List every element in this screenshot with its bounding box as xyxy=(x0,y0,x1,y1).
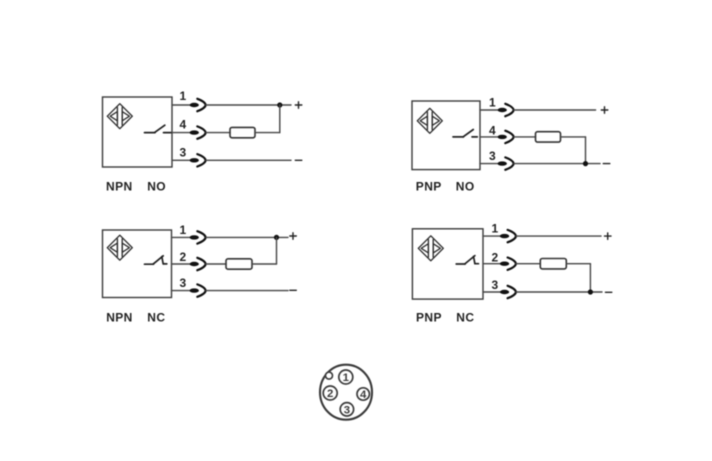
sensor body box U4 xyxy=(412,229,483,299)
wire vertical down to - rail xyxy=(589,264,591,292)
keying notch xyxy=(326,372,333,379)
svg-text:3: 3 xyxy=(179,145,186,159)
wire pin4 from box xyxy=(172,132,189,134)
plug contact pin2 xyxy=(500,258,516,270)
svg-text:4: 4 xyxy=(179,117,186,131)
wire pin4 to load xyxy=(514,136,536,138)
+ terminal xyxy=(601,107,608,114)
svg-text:1: 1 xyxy=(179,223,186,237)
svg-text:NPN: NPN xyxy=(106,179,133,193)
wire pin3 to - xyxy=(206,290,288,292)
wire load to vertical xyxy=(561,136,586,138)
sensor head symbol xyxy=(418,236,443,261)
sensor body box U3 xyxy=(103,230,172,298)
contact 4 circle xyxy=(357,388,369,400)
wire pin3 from box xyxy=(483,291,500,293)
plug contact pin3 xyxy=(190,284,206,296)
svg-text:NO: NO xyxy=(147,179,166,193)
wire load to vertical xyxy=(255,132,280,134)
wire pin3 from box xyxy=(172,290,190,292)
wire pin3 to - xyxy=(514,163,600,165)
svg-text:NC: NC xyxy=(147,310,165,324)
sensor body box U1 xyxy=(103,97,173,167)
+ terminal xyxy=(295,102,302,109)
contact 3 circle xyxy=(340,403,353,416)
plug contact pin2 xyxy=(190,258,206,270)
svg-text:4: 4 xyxy=(360,389,367,401)
+ terminal xyxy=(290,233,297,240)
- terminal xyxy=(605,291,611,293)
plug contact pin1 xyxy=(190,99,206,111)
wire load to vertical xyxy=(252,263,277,265)
junction dot xyxy=(588,289,593,294)
wire pin1 to + xyxy=(206,236,288,238)
wire pin3 to - xyxy=(516,291,602,293)
svg-text:PNP: PNP xyxy=(416,310,442,324)
plug contact pin3 xyxy=(498,157,514,169)
wire pin2 from box xyxy=(172,263,190,265)
wire pin1 to + xyxy=(516,235,601,237)
svg-text:1: 1 xyxy=(489,96,496,110)
svg-text:3: 3 xyxy=(489,149,496,163)
plug contact pin4 xyxy=(190,126,206,138)
load resistor xyxy=(536,132,561,142)
wire load to vertical xyxy=(566,263,590,265)
wire pin2 to load xyxy=(516,263,540,265)
NC switch contact xyxy=(145,256,167,264)
+ terminal xyxy=(605,233,612,240)
svg-text:NPN: NPN xyxy=(106,310,133,324)
svg-text:2: 2 xyxy=(491,251,498,265)
wire pin3 to - xyxy=(206,159,291,161)
wire vertical up to + rail xyxy=(279,105,281,133)
- terminal xyxy=(290,289,297,291)
svg-text:2: 2 xyxy=(327,388,333,400)
junction dot xyxy=(583,161,588,166)
plug contact pin1 xyxy=(190,231,206,243)
svg-text:3: 3 xyxy=(179,276,186,290)
wire pin1 from box xyxy=(483,235,500,237)
svg-text:1: 1 xyxy=(343,372,350,384)
junction dot xyxy=(277,102,282,107)
sensor head symbol xyxy=(107,104,132,129)
plug contact pin1 xyxy=(498,104,514,116)
- terminal xyxy=(295,159,302,161)
wire pin2 to load xyxy=(206,263,226,265)
contact 2 circle xyxy=(323,386,337,400)
junction dot xyxy=(274,235,279,240)
svg-text:3: 3 xyxy=(491,278,498,292)
svg-text:NO: NO xyxy=(456,180,475,194)
wire pin3 from box xyxy=(480,163,497,165)
svg-text:4: 4 xyxy=(489,123,496,137)
connector outer circle xyxy=(320,365,372,420)
svg-text:1: 1 xyxy=(491,222,498,236)
contact 1 circle xyxy=(339,370,353,384)
svg-text:3: 3 xyxy=(344,405,350,417)
plug contact pin1 xyxy=(500,230,516,242)
plug contact pin4 xyxy=(498,131,514,143)
wire pin4 to load xyxy=(206,132,230,134)
NO switch contact xyxy=(145,125,172,132)
wire pin1 from box xyxy=(172,236,190,238)
plug contact pin3 xyxy=(500,286,516,298)
sensor head symbol xyxy=(107,235,132,260)
wire pin4 from box xyxy=(480,136,497,138)
sensor body box U2 xyxy=(412,101,480,170)
load resistor xyxy=(226,259,252,269)
wire pin2 from box xyxy=(483,263,500,265)
wire pin1 to + xyxy=(514,109,596,111)
wire vertical down to - rail xyxy=(585,137,587,164)
NO switch contact xyxy=(453,130,477,137)
plug contact pin3 xyxy=(190,154,206,166)
svg-text:NC: NC xyxy=(456,310,474,324)
svg-text:1: 1 xyxy=(179,89,186,103)
svg-text:2: 2 xyxy=(179,250,186,264)
wire pin1 from box xyxy=(172,104,189,106)
load resistor xyxy=(230,127,255,137)
wire pin1 to + xyxy=(206,104,291,106)
wire vertical up to + rail xyxy=(276,237,278,264)
sensor head symbol xyxy=(417,108,442,133)
- terminal xyxy=(603,163,610,165)
load resistor xyxy=(540,259,566,269)
NC switch contact xyxy=(456,256,478,264)
svg-text:PNP: PNP xyxy=(416,180,442,194)
wire pin1 from box xyxy=(480,109,497,111)
wire pin3 from box xyxy=(172,159,189,161)
